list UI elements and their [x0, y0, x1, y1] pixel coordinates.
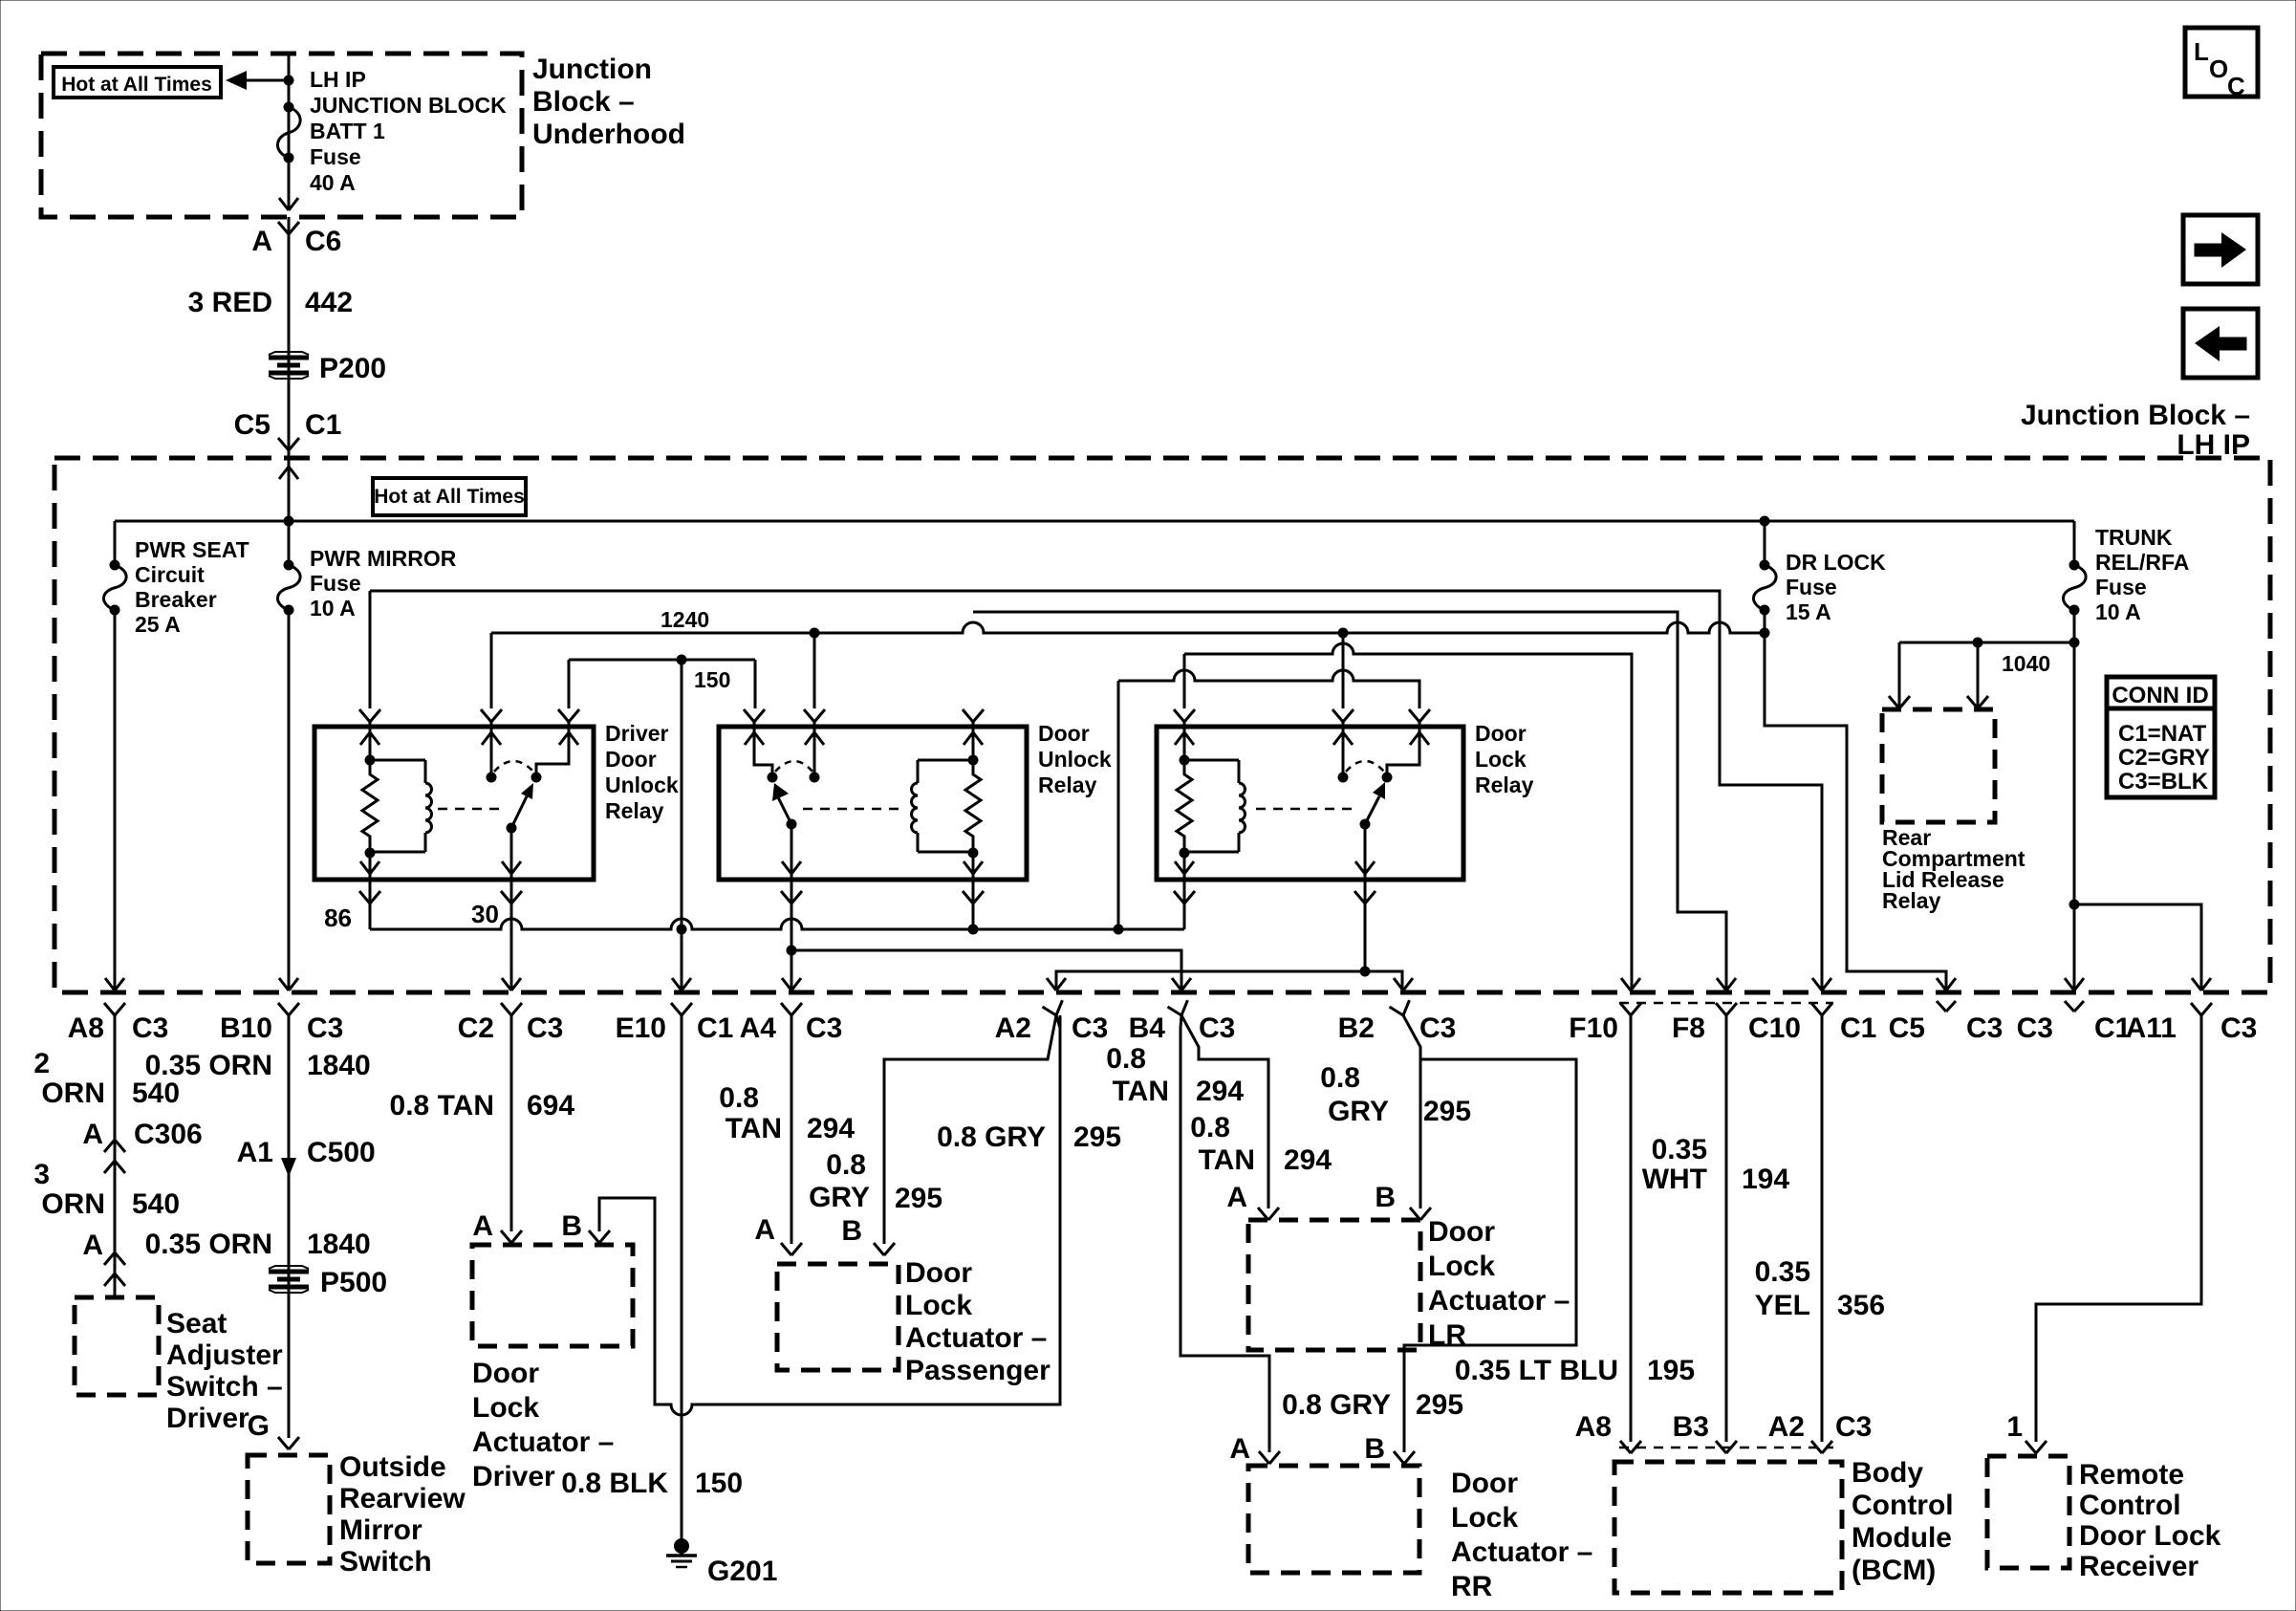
relay K1 switch contact B	[531, 722, 579, 783]
svg-text:Switch: Switch	[339, 1546, 432, 1578]
BCM pin labels A8 B3 A2 C3	[1575, 1411, 1873, 1443]
svg-text:C3: C3	[1419, 1012, 1456, 1044]
actuator Door Lock Actuator RR dashed box	[1248, 1466, 1419, 1573]
label 1240	[661, 607, 709, 632]
wire relay2 contact pin from 1240	[813, 633, 816, 708]
svg-text:294: 294	[1196, 1076, 1244, 1107]
svg-text:C1: C1	[305, 409, 341, 441]
svg-text:C3: C3	[1199, 1012, 1235, 1044]
svg-text:Actuator –: Actuator –	[472, 1426, 614, 1458]
relay K1 switch contact A	[482, 722, 501, 783]
svg-text:Relay: Relay	[1475, 773, 1534, 797]
wire arrow to Hot at All Times	[226, 71, 289, 90]
svg-text:C5: C5	[234, 409, 271, 441]
label Door Lock Actuator - Passenger	[905, 1257, 1051, 1386]
svg-text:40 A: 40 A	[310, 170, 356, 195]
switch Seat Adjuster Switch Driver dashed box	[75, 1297, 159, 1395]
label 0.8 GRY 295 A2	[937, 1121, 1121, 1153]
svg-text:B3: B3	[1673, 1411, 1709, 1443]
pin A label LR	[1226, 1182, 1247, 1213]
svg-text:G201: G201	[707, 1556, 777, 1587]
svg-text:15 A: 15 A	[1786, 599, 1831, 624]
svg-text:GRY: GRY	[809, 1182, 870, 1213]
svg-text:C1=NAT: C1=NAT	[2118, 721, 2207, 747]
svg-text:0.8: 0.8	[1106, 1043, 1146, 1075]
svg-text:0.35 ORN: 0.35 ORN	[145, 1229, 272, 1260]
svg-text:Seat: Seat	[166, 1308, 227, 1339]
svg-text:Lock: Lock	[1475, 747, 1527, 772]
relay K2 coil	[912, 760, 979, 859]
pin A label passenger	[754, 1214, 775, 1246]
svg-text:Driver: Driver	[166, 1403, 249, 1434]
svg-text:Hot at All Times: Hot at All Times	[374, 486, 525, 508]
svg-text:294: 294	[807, 1113, 855, 1144]
connector chevrons passenger actuator	[781, 1243, 895, 1255]
svg-text:1840: 1840	[307, 1229, 371, 1260]
label 0.35 ORN 1840 lower	[145, 1229, 371, 1260]
svg-text:Door: Door	[1038, 721, 1090, 746]
junction block LH IP dashed box	[54, 458, 2270, 992]
connector C1 chevron into LH IP block	[278, 438, 299, 450]
pin B label driver actuator	[561, 1210, 582, 1242]
relay K3 coil ground wire	[1174, 853, 1195, 929]
svg-text:TAN: TAN	[1199, 1144, 1255, 1176]
svg-text:WHT: WHT	[1642, 1164, 1707, 1195]
arrow out of underhood block	[279, 198, 298, 210]
wire 540 to seat adjuster switch	[114, 1015, 117, 1295]
svg-text:C3: C3	[132, 1012, 168, 1044]
svg-text:Relay: Relay	[605, 798, 664, 823]
svg-text:0.8 GRY: 0.8 GRY	[1282, 1389, 1391, 1421]
BCM connector dashed line	[1619, 1447, 1833, 1449]
svg-text:E10: E10	[616, 1012, 666, 1044]
svg-text:P200: P200	[319, 353, 386, 384]
relay K3 Door Lock Relay box	[1157, 727, 1463, 880]
svg-text:295: 295	[1416, 1389, 1463, 1421]
svg-text:Door: Door	[472, 1358, 539, 1389]
svg-text:LH IP: LH IP	[310, 67, 366, 92]
icon LOC box	[2185, 28, 2258, 100]
svg-text:3 RED: 3 RED	[188, 287, 272, 318]
wire 195 feeder L4 relay3 coil to F10	[1184, 643, 1632, 991]
svg-text:C2=GRY: C2=GRY	[2118, 745, 2210, 771]
legend CONN ID box	[2107, 677, 2215, 797]
svg-text:Fuse: Fuse	[310, 571, 361, 596]
svg-text:Unlock: Unlock	[1038, 747, 1112, 772]
svg-text:Breaker: Breaker	[135, 587, 217, 612]
label Junction Block - LH IP	[2021, 400, 2250, 461]
svg-text:1: 1	[2006, 1411, 2023, 1443]
svg-text:Actuator –: Actuator –	[1451, 1536, 1592, 1568]
svg-text:B: B	[1364, 1433, 1385, 1465]
relay K2 coil pin wire	[964, 722, 983, 766]
wire feed C1 to bus	[284, 458, 294, 565]
connector chevrons relay1 pins	[359, 709, 579, 722]
svg-text:0.8: 0.8	[826, 1149, 866, 1181]
wire circuit 1240 bus	[491, 622, 1765, 639]
pin A / connector C306 labels	[82, 1119, 202, 1150]
svg-text:Control: Control	[1852, 1490, 1954, 1521]
svg-text:A: A	[1229, 1433, 1250, 1465]
svg-text:A: A	[472, 1210, 493, 1242]
svg-text:A11: A11	[2126, 1012, 2177, 1044]
svg-text:694: 694	[527, 1090, 574, 1121]
switch Outside Rearview Mirror dashed box	[248, 1455, 330, 1563]
svg-text:195: 195	[1647, 1355, 1695, 1386]
receiver Remote Control Door Lock dashed box	[1987, 1456, 2069, 1568]
svg-text:F10: F10	[1569, 1012, 1618, 1044]
relay K1 coil-switch link	[438, 808, 505, 811]
svg-text:C2: C2	[458, 1012, 494, 1044]
module Body Control Module dashed box	[1614, 1462, 1842, 1593]
connector chevrons relay3 pins	[1174, 709, 1430, 722]
wire circuit 1040	[1899, 638, 2074, 708]
wire 294 to passenger actuator A	[791, 1015, 793, 1244]
svg-text:0.8 BLK: 0.8 BLK	[561, 1468, 668, 1499]
svg-text:Outside: Outside	[339, 1451, 446, 1483]
relay K2 switch contact B	[805, 722, 824, 783]
svg-text:30: 30	[471, 900, 499, 928]
label 0.8 BLK 150	[561, 1468, 743, 1499]
svg-text:B: B	[561, 1210, 582, 1242]
junction block underhood dashed box	[41, 54, 522, 217]
connector C306 double chevron	[104, 1140, 125, 1173]
svg-text:JUNCTION BLOCK: JUNCTION BLOCK	[310, 93, 507, 118]
wire bus relay2 common to B4	[787, 946, 1182, 991]
relay K2 switch arm	[772, 783, 797, 830]
svg-text:Rearview: Rearview	[339, 1483, 466, 1514]
relay K1 pin 86 wire	[359, 853, 380, 929]
connector chevrons rear compartment relay	[1889, 696, 1988, 708]
wire A2 to door lock actuator B wires	[1056, 1015, 1060, 1404]
svg-text:356: 356	[1837, 1290, 1885, 1321]
svg-text:Unlock: Unlock	[605, 773, 679, 797]
wire 150 link relay1 relay2 contacts	[569, 655, 755, 709]
svg-text:Fuse: Fuse	[310, 144, 361, 169]
label Remote Control Door Lock Receiver	[2079, 1459, 2221, 1582]
label Seat Adjuster Switch - Driver	[166, 1308, 283, 1434]
svg-text:0.8: 0.8	[1320, 1062, 1360, 1094]
svg-text:Lock: Lock	[472, 1392, 539, 1424]
pin A / connector C6 labels	[251, 226, 341, 257]
label Door Lock Actuator - RR	[1451, 1468, 1592, 1602]
label 0.35 LT BLU 195	[1455, 1355, 1618, 1386]
svg-text:0.35 LT BLU: 0.35 LT BLU	[1455, 1355, 1618, 1386]
svg-text:Passenger: Passenger	[905, 1355, 1051, 1386]
relay K1 coil	[365, 760, 432, 859]
svg-text:LR: LR	[1428, 1319, 1466, 1351]
svg-text:0.8: 0.8	[719, 1082, 759, 1114]
svg-text:C306: C306	[134, 1119, 203, 1150]
relay K3 common pin wire	[1354, 824, 1375, 971]
svg-text:295: 295	[1073, 1121, 1121, 1153]
wire F10 to BCM A8	[1630, 1015, 1633, 1442]
label Hot at All Times (underhood)	[54, 67, 221, 98]
relay K1 switch arm	[507, 783, 534, 834]
connector chevrons bottom row	[104, 1000, 2212, 1018]
label Door Lock Actuator - LR	[1428, 1216, 1570, 1351]
svg-text:0.8 TAN: 0.8 TAN	[390, 1090, 494, 1121]
svg-text:C3: C3	[2220, 1012, 2257, 1044]
pin 86 label	[324, 903, 352, 932]
wire fuse to B10 connector	[288, 610, 291, 991]
wire battery feed from top	[288, 54, 291, 208]
wire driver actuator B to A2 net	[599, 1015, 1060, 1415]
pin B label RR	[1364, 1433, 1385, 1465]
wire TRUNK fuse to C3 connector	[2069, 610, 2080, 991]
relay K2 resistor	[965, 760, 981, 853]
relay K2 switch travel arc	[775, 761, 812, 772]
wire DR LOCK fuse to circuit 1240 node	[1760, 610, 1770, 639]
svg-text:Underhood: Underhood	[532, 119, 685, 150]
svg-text:Door: Door	[605, 747, 657, 772]
label 0.8 TAN 294 LR A	[1190, 1112, 1332, 1176]
svg-text:C1: C1	[697, 1012, 733, 1044]
svg-text:Module: Module	[1852, 1522, 1952, 1554]
svg-text:Lock: Lock	[905, 1290, 972, 1321]
label DR LOCK Fuse 15 A	[1786, 550, 1886, 624]
connector chevrons relay2 pins	[744, 709, 984, 722]
label 0.35 WHT 194	[1642, 1134, 1790, 1195]
label 0.8 TAN 294 B4	[1106, 1043, 1244, 1107]
svg-text:C10: C10	[1748, 1012, 1801, 1044]
svg-text:Door: Door	[1428, 1216, 1495, 1248]
svg-text:C: C	[2227, 72, 2245, 100]
wire B2 loop to RR actuator B	[1404, 1059, 1576, 1452]
svg-text:P500: P500	[320, 1267, 387, 1298]
svg-text:Door: Door	[905, 1257, 972, 1289]
connector row labels	[68, 1012, 2258, 1044]
svg-text:L: L	[2194, 37, 2209, 66]
wire B2 branch to LR actuator B	[1403, 1015, 1420, 1208]
svg-text:F8: F8	[1672, 1012, 1705, 1044]
svg-text:Adjuster: Adjuster	[166, 1339, 283, 1371]
svg-text:Door: Door	[1475, 721, 1527, 746]
relay K3 coil-switch link	[1256, 808, 1357, 811]
svg-text:294: 294	[1284, 1144, 1332, 1176]
svg-text:TAN: TAN	[1113, 1076, 1169, 1107]
wire relay3 contact pin from 1240	[1342, 633, 1345, 708]
label Door Lock Relay	[1475, 721, 1534, 797]
svg-text:10 A: 10 A	[2095, 599, 2141, 624]
node battery tap	[284, 76, 294, 86]
label Driver Door Unlock Relay	[605, 721, 679, 823]
actuator Door Lock Actuator Driver dashed box	[472, 1245, 633, 1346]
svg-text:540: 540	[132, 1188, 180, 1220]
svg-text:A4: A4	[740, 1012, 777, 1044]
wire A11 to remote receiver	[2036, 1015, 2201, 1442]
pin C5 / connector C1 labels	[234, 409, 342, 441]
label 0.8 GRY 295 RR B	[1282, 1389, 1463, 1421]
wire B4 straight to RR actuator A	[1180, 1015, 1269, 1452]
svg-text:Junction: Junction	[532, 54, 652, 85]
svg-text:1040: 1040	[2002, 651, 2050, 676]
svg-text:ORN: ORN	[41, 1188, 105, 1220]
actuator Door Lock Actuator LR dashed box	[1248, 1220, 1420, 1350]
relay K2 common pin 30 wire	[781, 824, 802, 991]
icon arrow right box	[2183, 215, 2258, 284]
svg-text:295: 295	[895, 1183, 942, 1214]
svg-text:Relay: Relay	[1882, 888, 1941, 913]
svg-text:C3: C3	[806, 1012, 842, 1044]
svg-text:Actuator –: Actuator –	[1428, 1285, 1570, 1317]
connector chevron mirror switch	[278, 1437, 299, 1449]
svg-text:Remote: Remote	[2079, 1459, 2184, 1491]
svg-text:0.35: 0.35	[1755, 1256, 1810, 1288]
svg-text:A1: A1	[237, 1137, 273, 1168]
svg-text:A: A	[754, 1214, 775, 1246]
label Door Lock Actuator - Driver	[472, 1358, 614, 1492]
svg-text:Driver: Driver	[605, 721, 669, 746]
label PWR MIRROR Fuse 10 A	[310, 546, 457, 620]
relay K2 switch contact A	[745, 722, 778, 783]
wire 150 to E10	[677, 660, 687, 991]
label 2 ORN 540	[33, 1048, 180, 1109]
label Outside Rearview Mirror Switch	[339, 1451, 466, 1578]
relay K3 coil	[1180, 760, 1245, 859]
svg-text:Fuse: Fuse	[1786, 575, 1837, 599]
svg-text:A: A	[1226, 1182, 1247, 1213]
svg-text:150: 150	[695, 1468, 743, 1499]
svg-text:C500: C500	[307, 1137, 376, 1168]
svg-text:Driver: Driver	[472, 1461, 555, 1492]
pin G label	[248, 1410, 270, 1442]
svg-text:PWR MIRROR: PWR MIRROR	[310, 546, 457, 571]
svg-text:10 A: 10 A	[310, 596, 356, 620]
svg-text:Door: Door	[1451, 1468, 1518, 1499]
svg-text:REL/RFA: REL/RFA	[2095, 550, 2189, 575]
svg-text:C3: C3	[2017, 1012, 2053, 1044]
relay K2 Door Unlock Relay box	[719, 727, 1027, 880]
svg-text:Circuit: Circuit	[135, 562, 205, 587]
label 0.8 TAN 294 passenger	[719, 1082, 855, 1144]
connector chevrons driver actuator	[501, 1230, 610, 1243]
wire breaker to A8 connector	[114, 610, 117, 991]
fuse BATT 1 40 A	[277, 102, 300, 163]
relay K1 resistor	[362, 760, 378, 853]
BCM connector chevrons	[1620, 1441, 1832, 1453]
wire C10 to BCM A2	[1821, 1015, 1824, 1442]
wire 442 3 RED	[288, 217, 291, 458]
label 3 ORN 540	[33, 1159, 180, 1220]
svg-text:TAN: TAN	[726, 1113, 782, 1144]
svg-text:A: A	[82, 1230, 103, 1261]
arrow feed into LH IP block	[279, 467, 298, 479]
ground G201	[666, 1538, 777, 1587]
svg-text:Mirror: Mirror	[339, 1514, 422, 1546]
label 3 RED 442	[188, 287, 353, 318]
relay Rear Compartment Lid Release dashed box	[1882, 709, 1995, 822]
svg-text:Lock: Lock	[1451, 1502, 1518, 1534]
svg-text:C3: C3	[1966, 1012, 2003, 1044]
label 0.8 GRY 295 passenger B wire	[809, 1149, 942, 1214]
wire 195 feeder L2 relay2 coil to F8	[973, 612, 1726, 991]
svg-text:A: A	[82, 1119, 103, 1150]
label LH IP JUNCTION BLOCK BATT 1 Fuse 40 A	[310, 67, 507, 195]
label 0.8 TAN 694	[390, 1090, 575, 1121]
svg-text:C3: C3	[1835, 1411, 1872, 1443]
label 1040	[2002, 651, 2050, 676]
svg-text:Door Lock: Door Lock	[2079, 1520, 2221, 1552]
svg-text:C1: C1	[1840, 1012, 1876, 1044]
svg-text:YEL: YEL	[1755, 1290, 1810, 1321]
relay K3 switch contact B	[1382, 722, 1430, 783]
pin A1 / connector C500 labels	[237, 1137, 376, 1168]
wire 194 feeder L1 relay1 coil to C10	[370, 591, 1822, 991]
wire passenger actuator B to A2	[884, 1015, 1056, 1244]
svg-text:Fuse: Fuse	[2095, 575, 2147, 599]
pin A label lower	[82, 1230, 103, 1261]
svg-text:295: 295	[1423, 1096, 1471, 1127]
svg-text:BATT 1: BATT 1	[310, 119, 385, 143]
svg-text:0.8: 0.8	[1190, 1112, 1230, 1143]
wire feeder L5 relay3 contact to ground bus	[1118, 670, 1419, 929]
label 0.35 YEL 356	[1755, 1256, 1885, 1321]
wire relay1 contact pin from 1240	[490, 633, 493, 708]
wire trunk branch to A11 connector	[2074, 904, 2201, 991]
svg-text:G: G	[248, 1410, 270, 1442]
svg-text:C3: C3	[307, 1012, 343, 1044]
relay K3 switch arm	[1360, 782, 1386, 830]
label Door Unlock Relay	[1038, 721, 1112, 797]
pin 30 label	[471, 900, 499, 928]
svg-text:TRUNK: TRUNK	[2095, 525, 2173, 550]
svg-text:C5: C5	[1889, 1012, 1925, 1044]
fuse TRUNK REL/RFA 10 A	[2063, 521, 2086, 616]
svg-text:A2: A2	[995, 1012, 1031, 1044]
label 0.35 ORN 1840	[145, 1050, 371, 1081]
connector chevron remote receiver	[2025, 1441, 2047, 1453]
svg-text:Receiver: Receiver	[2079, 1551, 2199, 1582]
dashed connector group line F10-C10	[1619, 1002, 1833, 1005]
relay K1 switch travel arc	[494, 761, 533, 772]
wire F8 to BCM B3	[1725, 1015, 1728, 1442]
svg-text:25 A: 25 A	[135, 612, 181, 637]
svg-text:Relay: Relay	[1038, 773, 1097, 797]
svg-text:442: 442	[305, 287, 353, 318]
svg-text:C3: C3	[527, 1012, 563, 1044]
wire bus relay3 common to A2 and B2	[1056, 967, 1402, 991]
label Rear Compartment Lid Release Relay	[1882, 825, 2025, 913]
splice P500	[269, 1266, 387, 1298]
svg-text:GRY: GRY	[1328, 1096, 1389, 1127]
svg-text:86: 86	[324, 903, 352, 932]
relay K1 Driver Door Unlock Relay box	[314, 727, 594, 880]
seat adjuster connector double chevron	[104, 1252, 125, 1286]
relay K3 switch travel arc	[1346, 761, 1384, 772]
pin B label LR	[1375, 1182, 1396, 1213]
connector chevrons LR actuator	[1258, 1208, 1431, 1220]
svg-text:Block –: Block –	[532, 86, 635, 118]
relay K1 coil pin wire	[360, 722, 379, 766]
svg-text:Junction Block –: Junction Block –	[2021, 400, 2250, 431]
label Junction Block - Underhood	[532, 54, 685, 150]
svg-text:2: 2	[33, 1048, 50, 1079]
actuator Door Lock Actuator Passenger dashed box	[777, 1264, 899, 1370]
label PWR SEAT Circuit Breaker 25 A	[135, 537, 249, 637]
relay K3 coil pin wire	[1175, 722, 1194, 766]
svg-text:B2: B2	[1338, 1012, 1375, 1044]
svg-text:3: 3	[33, 1159, 50, 1190]
svg-text:194: 194	[1742, 1164, 1789, 1195]
svg-text:1240: 1240	[661, 607, 709, 632]
wire DR LOCK fuse to C5 connector staircase	[1765, 633, 1946, 991]
svg-text:150: 150	[694, 667, 730, 692]
label 0.8 GRY 295 LR B	[1320, 1062, 1471, 1127]
relay K2 coil-switch link	[803, 808, 902, 811]
fuse PWR MIRROR 10 A	[277, 560, 300, 616]
label 195 F10	[1647, 1355, 1695, 1386]
